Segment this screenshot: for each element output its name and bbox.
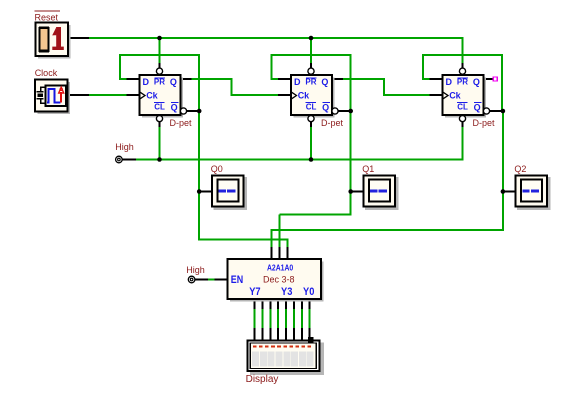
svg-text:D: D xyxy=(446,77,453,87)
svg-text:CL: CL xyxy=(154,102,165,111)
svg-text:Ck: Ck xyxy=(146,90,158,100)
svg-text:Ck: Ck xyxy=(449,90,461,100)
svg-text:High: High xyxy=(186,265,205,275)
svg-text:D-pet: D-pet xyxy=(170,118,193,128)
svg-text:Q2: Q2 xyxy=(514,164,526,174)
svg-text:D-pet: D-pet xyxy=(473,118,496,128)
svg-text:Q0: Q0 xyxy=(211,164,223,174)
svg-text:Q: Q xyxy=(171,103,178,113)
svg-text:Ck: Ck xyxy=(298,90,310,100)
svg-text:PR: PR xyxy=(305,78,316,87)
svg-text:High: High xyxy=(115,142,134,152)
svg-text:Q1: Q1 xyxy=(362,164,374,174)
svg-text:Q: Q xyxy=(474,103,481,113)
svg-text:EN: EN xyxy=(231,274,243,286)
svg-text:D: D xyxy=(143,77,150,87)
svg-text:A2A1A0: A2A1A0 xyxy=(267,264,294,273)
svg-text:Y3: Y3 xyxy=(281,286,292,298)
svg-text:Q: Q xyxy=(321,77,328,87)
svg-text:PR: PR xyxy=(154,78,165,87)
svg-text:Q: Q xyxy=(473,77,480,87)
svg-text:Dec 3-8: Dec 3-8 xyxy=(263,275,295,285)
svg-text:CL: CL xyxy=(457,102,468,111)
svg-text:Clock: Clock xyxy=(35,68,58,78)
svg-text:Display: Display xyxy=(246,374,279,385)
svg-text:Y0: Y0 xyxy=(303,286,314,298)
svg-text:Q: Q xyxy=(170,77,177,87)
svg-text:PR: PR xyxy=(457,78,468,87)
svg-text:Reset: Reset xyxy=(35,12,59,22)
svg-text:Y7: Y7 xyxy=(249,286,260,298)
svg-text:CL: CL xyxy=(306,102,317,111)
svg-text:D-pet: D-pet xyxy=(321,118,344,128)
svg-text:Q: Q xyxy=(322,103,329,113)
svg-text:D: D xyxy=(294,77,301,87)
